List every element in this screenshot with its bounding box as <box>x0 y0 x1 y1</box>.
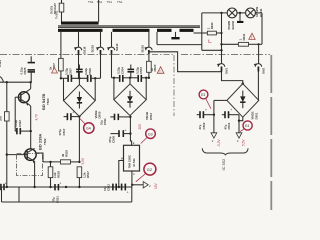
capacitor C507 <box>65 68 73 82</box>
wire bridge D503 output down <box>130 116 131 146</box>
capacitor C508 <box>108 128 130 143</box>
capacitor C511 <box>100 114 131 125</box>
svg-text:G4: G4 <box>86 127 91 131</box>
transistor T523 <box>15 82 50 149</box>
resistor R518 <box>48 161 60 187</box>
wire left vertical rail <box>6 82 8 112</box>
svg-text:Si215: Si215 <box>140 45 144 53</box>
shield box around T522 <box>17 154 43 176</box>
capacitor stub above D505 <box>76 65 83 79</box>
page edge line <box>270 55 272 210</box>
bridge rectifier D501 <box>227 84 259 120</box>
svg-text:+: + <box>72 110 74 114</box>
svg-text:R517: R517 <box>86 171 90 178</box>
svg-text:BD 239A: BD 239A <box>38 133 43 150</box>
svg-text:D501: D501 <box>254 112 258 119</box>
warning triangle near R507 <box>52 68 58 74</box>
svg-text:!: ! <box>251 36 252 40</box>
wire lamp row <box>202 12 262 14</box>
svg-text:+: + <box>59 182 61 186</box>
capacitor C517 <box>58 110 79 135</box>
capacitor C512 <box>103 184 129 195</box>
svg-text:+: + <box>125 128 127 132</box>
dash-dot divider horizontal <box>0 54 150 56</box>
resistor R517 <box>77 167 90 187</box>
capacitor left edge <box>1 181 7 190</box>
wire link row <box>202 49 222 51</box>
wire arc1 to bridge top <box>222 72 243 84</box>
bridge rectifier D505 <box>64 78 102 118</box>
svg-text:R520: R520 <box>153 64 157 71</box>
fuse Si215 <box>140 32 152 54</box>
fuse Si501 <box>49 0 64 22</box>
transformer core lines <box>58 25 200 27</box>
svg-text:20V: 20V <box>138 123 142 130</box>
svg-text:TS1 TS1 TS1 TS1: TS1 TS1 TS1 TS1 <box>88 0 123 4</box>
svg-text:C507: C507 <box>68 68 72 75</box>
transistor T522 <box>6 133 47 187</box>
svg-text:R642: R642 <box>210 22 214 29</box>
wire caps row middle block <box>112 77 151 79</box>
warning triangle near R520 <box>157 67 164 74</box>
svg-text:+: + <box>230 108 232 112</box>
ground between lamps <box>237 13 243 23</box>
svg-text:5,5V: 5,5V <box>81 157 85 164</box>
capacitor C525 <box>19 56 35 82</box>
svg-text:IC 511: IC 511 <box>132 158 136 167</box>
resistor R519 <box>37 150 81 164</box>
capacitor C522 <box>14 97 32 134</box>
svg-text:Si219: Si219 <box>91 45 95 53</box>
voltage regulator IC511 <box>121 141 140 176</box>
svg-text:T523: T523 <box>46 98 50 105</box>
wire left edge entry <box>0 77 4 83</box>
page arrow +5.5V <box>236 133 242 138</box>
capacitor C503 <box>135 67 143 82</box>
resistor R507 <box>48 58 63 71</box>
wire regulator output <box>131 171 143 186</box>
wire lamp right leg <box>261 13 263 44</box>
capacitor C521 <box>52 182 62 203</box>
transformer secondary winding bars <box>58 29 103 32</box>
resistor R520 <box>147 52 158 78</box>
svg-text:C522: C522 <box>18 120 22 127</box>
fuse Si213 <box>107 32 119 78</box>
svg-text:C511: C511 <box>103 118 107 125</box>
test point E4 <box>240 121 252 132</box>
wire bottom bus 2 <box>2 201 132 203</box>
svg-text:C517: C517 <box>62 128 66 135</box>
svg-text:-5,5V: -5,5V <box>217 139 221 147</box>
svg-text:E: E <box>133 141 135 145</box>
svg-text:+: + <box>127 191 129 195</box>
svg-text:R519: R519 <box>65 150 69 157</box>
page arrow -5.5V <box>211 133 217 138</box>
svg-text:C501: C501 <box>227 122 231 129</box>
dash-dot divider vertical <box>173 55 175 116</box>
page arrow 15V output <box>143 182 148 188</box>
svg-text:BL642: BL642 <box>231 21 235 30</box>
svg-text:SiV1: SiV1 <box>225 67 229 74</box>
svg-text:C503: C503 <box>139 67 143 74</box>
test point G4 <box>80 119 94 134</box>
fuse SiV1 <box>217 63 229 74</box>
test point G3 <box>141 129 156 144</box>
capacitor C502 <box>197 108 214 130</box>
lamp BL641 <box>246 7 263 18</box>
wire lamp left leg <box>201 13 203 50</box>
wire D501 bottom output <box>238 115 243 133</box>
warning triangle near R641 <box>249 33 255 39</box>
wire bus vertical joint <box>131 185 133 202</box>
wire from R520 top to right section <box>149 52 222 72</box>
svg-text:A: A <box>133 172 135 176</box>
ground center tap <box>171 32 179 40</box>
svg-text:Si216: Si216 <box>82 46 86 54</box>
resistor R521 <box>0 112 9 121</box>
fuse Si216 <box>74 32 87 78</box>
wire tap bar1 left (to R507) <box>60 32 62 59</box>
wire D501 left output <box>214 99 227 101</box>
wire mains right leg <box>98 0 100 22</box>
test point E3 <box>199 90 211 109</box>
svg-text:T522: T522 <box>43 138 47 145</box>
svg-text:IC 552: IC 552 <box>221 158 226 171</box>
svg-text:10k: 10k <box>0 116 2 121</box>
transformer primary winding bar <box>61 22 99 25</box>
svg-text:G3: G3 <box>148 132 153 136</box>
svg-text:R518: R518 <box>57 171 61 178</box>
fuse SiV2 <box>254 44 266 100</box>
svg-text:E4: E4 <box>245 124 249 128</box>
svg-text:+: + <box>205 108 207 112</box>
svg-text:C524: C524 <box>0 60 2 67</box>
svg-text:5,5V: 5,5V <box>242 139 246 146</box>
svg-text:C512: C512 <box>107 184 111 191</box>
wire lamp middle leg <box>221 13 223 64</box>
svg-text:G2: G2 <box>147 167 153 172</box>
svg-text:SiV2: SiV2 <box>261 67 265 74</box>
wire regulator ground leg <box>119 161 124 188</box>
fuse Si219 <box>91 32 104 78</box>
wire transformer feed row <box>157 44 202 46</box>
resistor R641 <box>222 33 263 46</box>
capacitor C501 <box>222 108 239 130</box>
capacitor C504 <box>117 67 125 82</box>
test point G2 <box>136 163 156 182</box>
resistor R642 <box>194 22 223 42</box>
svg-text:R641: R641 <box>242 33 246 40</box>
svg-text:+: + <box>5 181 7 185</box>
wire bus1-bus2 link <box>18 187 20 202</box>
wire caps row left block <box>60 77 101 79</box>
bridge rectifier D503 <box>114 78 153 120</box>
svg-text:15V: 15V <box>154 182 158 189</box>
svg-text:C502: C502 <box>202 122 206 129</box>
wire bottom bus 1 <box>2 186 132 188</box>
wire bridge D505 output down <box>78 117 80 162</box>
lamp BL642 <box>227 8 237 30</box>
svg-text:C508: C508 <box>111 136 115 143</box>
brace IC552 <box>202 148 248 155</box>
svg-text:!: ! <box>160 69 161 73</box>
svg-text:C506: C506 <box>88 68 92 75</box>
svg-text:C525: C525 <box>23 67 27 74</box>
svg-text:E3: E3 <box>201 93 205 97</box>
svg-text:D503: D503 <box>149 113 153 120</box>
svg-text:4,7V: 4,7V <box>35 113 39 120</box>
svg-text:C504: C504 <box>120 67 124 74</box>
svg-text:D505: D505 <box>98 111 102 118</box>
wire horizontal upper-left <box>0 81 31 83</box>
svg-text:Tr 501: Tr 501 <box>55 10 59 19</box>
capacitor stub above D503 <box>128 65 135 78</box>
capacitor C506 <box>84 68 92 82</box>
svg-text:M: M <box>121 156 123 160</box>
svg-text:Si213: Si213 <box>115 43 119 51</box>
svg-text:78M 15UC: 78M 15UC <box>128 154 132 168</box>
